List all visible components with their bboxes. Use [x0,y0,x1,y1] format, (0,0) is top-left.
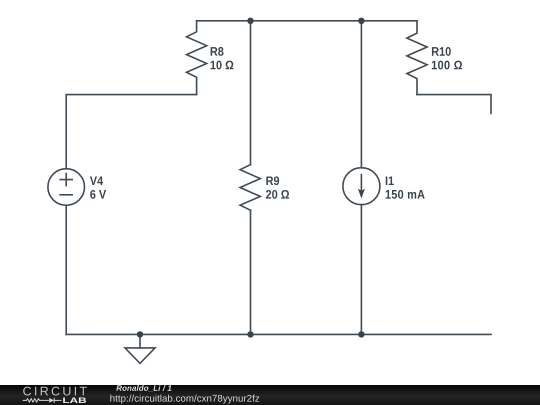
label R8 value 10 ohm [211,61,234,70]
junction top rail R9 [247,18,253,24]
wire R9 top [250,21,252,165]
junction bottom rail I1 [358,331,364,337]
junction bottom rail R9 [247,331,253,337]
wire V4 bottom to bottom rail [65,205,67,334]
ground [125,334,155,363]
label R9 [266,176,279,185]
label R10 value 100 ohm [432,61,462,70]
junction ground [137,331,143,337]
wire R8 bottom to V4 top [66,95,196,169]
wire R9 bottom [250,210,252,334]
wire top rail [197,20,417,22]
resistor R8 [187,21,207,95]
resistor R10 [407,21,427,95]
footer bar [0,385,540,405]
wire R10 bottom right stub [417,95,491,114]
current source I1 [343,168,380,205]
footer title Ronaldo_Li / 1 [116,385,171,392]
footer url [110,395,259,404]
label I1 value 150 mA [386,190,425,199]
voltage source V4 [48,169,85,206]
label V4 [90,176,103,185]
junction top rail I1 [358,18,364,24]
wire I1 bottom [360,205,362,335]
label I1 [386,176,394,185]
CircuitLab logo resistor-diode glyph [23,398,62,403]
label R8 [211,47,224,56]
label R10 [432,47,451,56]
label V4 value 6 V [90,190,106,199]
resistor R9 [240,165,260,211]
label R9 value 20 ohm [266,190,289,199]
CircuitLab logo CIRCUIT [23,387,87,396]
wire I1 top [360,21,362,168]
CircuitLab logo LAB [63,398,86,403]
wire bottom rail [66,333,491,335]
